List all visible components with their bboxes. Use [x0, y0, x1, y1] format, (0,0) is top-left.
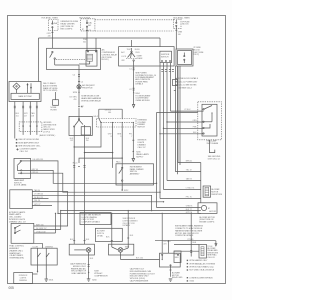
svg-text:SWITCH: SWITCH	[137, 127, 145, 129]
svg-text:DIMMING: DIMMING	[19, 280, 28, 282]
svg-text:GRY 27: GRY 27	[34, 204, 40, 206]
svg-text:C2: C2	[129, 89, 131, 91]
svg-text:LT BLU 158: LT BLU 158	[36, 231, 45, 233]
svg-text:DIST CELL 14: DIST CELL 14	[208, 158, 220, 160]
svg-text:WITH BLOWER RELAY: WITH BLOWER RELAY	[81, 99, 101, 102]
svg-text:CELL 114: CELL 114	[20, 151, 28, 153]
svg-text:ILLUM: ILLUM	[33, 246, 39, 248]
svg-text:S339: S339	[125, 246, 129, 248]
svg-text:DIMMING: DIMMING	[45, 246, 54, 248]
svg-text:YEL 26: YEL 26	[34, 200, 40, 202]
svg-text:HVAC HARNESS: HVAC HARNESS	[72, 272, 87, 275]
svg-text:151: 151	[16, 115, 19, 117]
svg-text:MED: MED	[175, 257, 180, 259]
svg-text:459: 459	[74, 99, 77, 101]
svg-text:TAN 30: TAN 30	[34, 189, 40, 192]
svg-text:GRY 78: GRY 78	[186, 212, 192, 214]
svg-text:RELAY GND: RELAY GND	[172, 276, 183, 279]
svg-text:CHIME MODULE: CHIME MODULE	[135, 100, 150, 102]
svg-text:BRN 41: BRN 41	[186, 161, 192, 163]
svg-text:CALIFORNIA ENGINE: CALIFORNIA ENGINE	[130, 280, 149, 283]
svg-text:ORN 40: ORN 40	[32, 172, 38, 174]
svg-text:COMPLETE DETAILS: COMPLETE DETAILS	[175, 234, 194, 237]
svg-text:LT GRN 24: LT GRN 24	[34, 194, 43, 196]
svg-text:BULB: BULB	[135, 49, 140, 51]
svg-text:HD-C: HD-C	[73, 162, 78, 164]
svg-text:ORN 76: ORN 76	[186, 206, 193, 208]
svg-text:CELL 11 POWER DIST: CELL 11 POWER DIST	[178, 81, 198, 83]
svg-text:G301: G301	[49, 279, 54, 281]
svg-text:HD-C: HD-C	[94, 116, 99, 118]
svg-text:TEMPERATURE): TEMPERATURE)	[9, 257, 24, 260]
svg-text:340: 340	[178, 34, 181, 36]
svg-text:CELL 63: CELL 63	[207, 257, 214, 259]
svg-text:C1: C1	[129, 69, 131, 71]
svg-text:DK GRN 157: DK GRN 157	[36, 228, 47, 230]
svg-text:DK BLU 25: DK BLU 25	[34, 197, 43, 199]
svg-text:COMPLETE DETAILS: COMPLETE DETAILS	[82, 221, 101, 224]
svg-text:PPL 75: PPL 75	[186, 197, 192, 199]
svg-text:RUN: RUN	[136, 52, 141, 54]
svg-text:CRANK: CRANK	[136, 57, 143, 60]
svg-text:341: 341	[83, 41, 86, 43]
svg-text:RESISTORS: RESISTORS	[211, 194, 222, 196]
svg-text:BLK 150: BLK 150	[136, 258, 143, 260]
svg-text:SUPPLY: SUPPLY	[136, 156, 144, 158]
svg-text:(2 OF 2): (2 OF 2)	[43, 132, 50, 134]
svg-text:FILTER: FILTER	[51, 109, 58, 111]
svg-text:OF IP): OF IP)	[194, 54, 200, 56]
svg-text:HD-C: HD-C	[116, 161, 121, 163]
svg-text:SWITCH ASM: SWITCH ASM	[207, 142, 219, 145]
svg-text:473: 473	[163, 244, 166, 246]
svg-text:DETAIL: DETAIL	[97, 235, 103, 238]
svg-text:WHT 156: WHT 156	[36, 224, 44, 226]
svg-text:PPL 65: PPL 65	[188, 239, 194, 241]
svg-text:G200: G200	[189, 281, 194, 283]
svg-text:ENG COMPT): ENG COMPT)	[61, 28, 73, 30]
svg-text:152: 152	[70, 140, 73, 142]
svg-text:SWITCH: SWITCH	[161, 56, 169, 58]
svg-text:DK GRN 195: DK GRN 195	[33, 159, 44, 161]
svg-text:440: 440	[48, 35, 51, 37]
svg-text:FROM PCM: FROM PCM	[82, 87, 93, 89]
svg-text:UP TO 10 SPKR): UP TO 10 SPKR)	[43, 90, 58, 92]
svg-text:ON PAGE 102-3: ON PAGE 102-3	[178, 87, 192, 90]
svg-text:START: START	[137, 55, 144, 58]
svg-text:LOWER BLOWER SPEEDS: LOWER BLOWER SPEEDS	[189, 277, 213, 279]
svg-text:460: 460	[108, 112, 111, 114]
svg-text:8: 8	[111, 136, 112, 138]
svg-text:HOT AT ALL TIMES: HOT AT ALL TIMES	[42, 17, 59, 20]
svg-text:117: 117	[24, 115, 27, 117]
svg-text:DETAILS: DETAILS	[135, 83, 143, 86]
svg-text:COMPRESSOR: COMPRESSOR	[94, 275, 108, 277]
svg-text:005: 005	[9, 286, 15, 290]
svg-text:C1: C1	[89, 30, 91, 32]
svg-text:BLOCK): BLOCK)	[102, 59, 109, 61]
svg-text:C2: C2	[73, 75, 75, 77]
svg-text:YEL 72: YEL 72	[186, 170, 192, 172]
svg-text:LOCK: LOCK	[121, 56, 127, 58]
svg-text:(DOOR JAMB): (DOOR JAMB)	[14, 184, 27, 187]
svg-text:7: 7	[131, 136, 132, 138]
svg-text:118: 118	[31, 115, 34, 117]
svg-text:WITH HEATER ONLY: WITH HEATER ONLY	[189, 259, 208, 262]
svg-text:ORN: ORN	[193, 120, 198, 122]
svg-text:150: 150	[86, 140, 89, 142]
svg-text:DETAILS: DETAILS	[123, 224, 131, 227]
svg-text:CELL 10 SEE NOTES: CELL 10 SEE NOTES	[178, 85, 197, 87]
svg-text:G200: G200	[92, 279, 97, 281]
svg-text:WITH MANUAL A/C SYSTEMS: WITH MANUAL A/C SYSTEMS	[189, 262, 215, 265]
svg-text:ENGINE COMPT): ENGINE COMPT)	[199, 222, 214, 224]
svg-text:MOTOR: MOTOR	[209, 211, 216, 213]
svg-text:TAN 73: TAN 73	[186, 178, 192, 181]
svg-text:BOSE AMPLIFIER ONLY: BOSE AMPLIFIER ONLY	[18, 141, 39, 144]
svg-text:BLK 77: BLK 77	[186, 209, 192, 211]
svg-text:S212: S212	[124, 190, 128, 192]
svg-text:C2: C2	[81, 81, 83, 83]
svg-text:FUSE BLOCK DETAILS: FUSE BLOCK DETAILS	[178, 77, 199, 80]
svg-text:LT BLU 74: LT BLU 74	[186, 188, 194, 190]
svg-text:S226: S226	[73, 92, 77, 94]
svg-text:LT BLU: LT BLU	[184, 109, 191, 111]
svg-text:HOT AT ALL TIMES: HOT AT ALL TIMES	[173, 17, 190, 20]
svg-text:BLOCK: BLOCK	[182, 24, 189, 26]
svg-text:S300 UP LEVEL SOUND: S300 UP LEVEL SOUND	[18, 139, 39, 141]
svg-text:HEATER AND A/C: HEATER AND A/C	[71, 267, 87, 270]
svg-text:BASE SYSTEM: BASE SYSTEM	[18, 95, 31, 98]
svg-text:( AUDIO SYSTEM ): ( AUDIO SYSTEM )	[39, 134, 55, 137]
svg-text:WITHOUT AUTOMATIC temp: WITHOUT AUTOMATIC temp	[189, 266, 213, 269]
svg-text:GRY 44: GRY 44	[32, 169, 38, 171]
svg-text:CELL 117: CELL 117	[138, 147, 146, 149]
svg-text:SEE GROUND DIST CELL: SEE GROUND DIST CELL	[18, 146, 40, 148]
svg-text:NOT USED ON ALL MODELS: NOT USED ON ALL MODELS	[189, 269, 214, 272]
svg-text:9: 9	[120, 136, 121, 138]
svg-text:ASSEMBLY: ASSEMBLY	[130, 173, 141, 176]
